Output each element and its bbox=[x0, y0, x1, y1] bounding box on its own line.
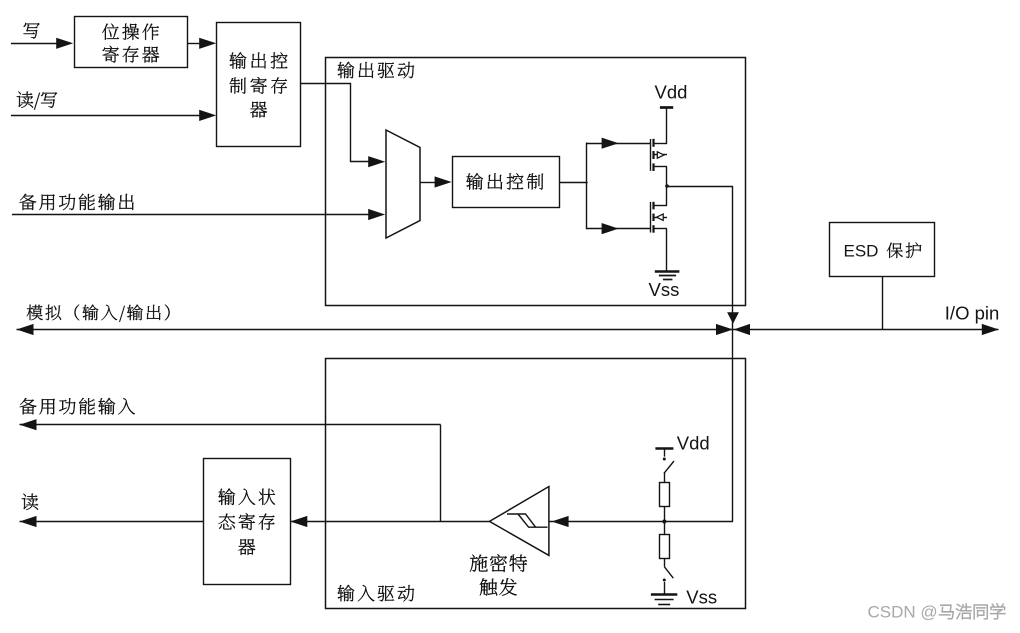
resistor R1 (pull-up) bbox=[660, 483, 670, 507]
switch SW2 (pull-down enable): blade bbox=[664, 567, 673, 578]
wire: pull-down resistor to switch bbox=[664, 558, 666, 567]
wire: ESD box to I/O line bbox=[882, 277, 884, 330]
wire: output control register to multiplexer input (with corner) bbox=[301, 84, 386, 168]
wire: output node to I/O column bbox=[667, 186, 733, 188]
transistor Q1 P-MOS: source link to output node bbox=[653, 167, 667, 187]
transistor Q1 P-MOS: gate bar bbox=[650, 139, 652, 171]
node: 模拟（输入/输出） analog in/out label bbox=[27, 305, 170, 322]
register: 输入状态寄存器 (input status register) box bbox=[204, 459, 291, 585]
transistor Q2 N-MOS: drain link to output node bbox=[653, 186, 667, 206]
svg-text:Vdd: Vdd bbox=[677, 432, 710, 453]
node: 施密特触发 label bbox=[470, 554, 527, 595]
ground: output stage Vss symbol bbox=[655, 272, 680, 280]
ground: pull-down Vss symbol bbox=[651, 595, 677, 605]
wire: I/O pin horizontal line bbox=[17, 329, 999, 331]
power: Vss label (output stage) bbox=[649, 279, 680, 300]
wire: gate splitter vertical bbox=[586, 143, 588, 230]
node: 写 (write) label bbox=[24, 23, 40, 39]
power: Vdd rail bar (pull-up) bbox=[655, 447, 673, 450]
wire: alternate function input line with left arrow bbox=[20, 419, 441, 430]
schmitt trigger U2: hysteresis mark bbox=[507, 514, 548, 527]
wire: alternate function output into multiplexer bbox=[12, 209, 385, 220]
transistor Q2 N-MOS: body arrow bbox=[653, 214, 667, 220]
transistor Q2 N-MOS: channel segments bbox=[652, 202, 654, 233]
resistor R2 (pull-down) bbox=[660, 535, 670, 559]
node: 备用功能输出 (alternate function output) label bbox=[19, 194, 133, 211]
node: 读/写 (read/write) label bbox=[17, 92, 57, 110]
wire: input node to pull-down resistor bbox=[664, 522, 666, 535]
wire: switch to pull-up resistor bbox=[664, 473, 666, 483]
multiplexer U1 (output source select) bbox=[386, 130, 420, 238]
switch SW1 (pull-up enable): blade bbox=[664, 461, 674, 473]
switch SW2 (pull-down enable): bottom contact bbox=[663, 579, 666, 595]
wire: I/O column to schmitt trigger input with arrow bbox=[549, 516, 733, 527]
transistor Q2 N-MOS: gate bar bbox=[650, 202, 652, 233]
wire: I/O column vertical (output driver to pin and input path) bbox=[732, 186, 734, 522]
node: 输出驱动 label bbox=[338, 62, 415, 79]
junction: left arrow at analog end bbox=[17, 324, 34, 335]
wire: write input with arrow into bit-operation register bbox=[11, 38, 73, 49]
wire: splitter to PMOS gate with arrow bbox=[587, 138, 650, 149]
svg-text:Vss: Vss bbox=[649, 279, 680, 300]
transistor Q1 P-MOS: channel segments bbox=[652, 139, 654, 171]
power: Vdd label (pull-up) bbox=[677, 432, 710, 453]
schmitt trigger U2: 施密特触发 triangle bbox=[490, 487, 549, 556]
wire: output control to gate splitter bbox=[560, 182, 588, 184]
block: 输入驱动 (input driver) outer box bbox=[326, 359, 746, 609]
junction: driver output into I/O line (down arrow) bbox=[727, 312, 739, 324]
wire: read/write input with arrow into output control register bbox=[11, 110, 216, 121]
wire: pull-up resistor to input node bbox=[664, 507, 666, 522]
node: 读 (read) label bbox=[22, 494, 38, 510]
node: 备用功能输入 (alternate function input) label bbox=[20, 398, 135, 415]
node: input node junction bbox=[662, 519, 666, 523]
power: Vdd label (output stage) bbox=[655, 81, 688, 102]
wire: splitter to NMOS gate with arrow bbox=[587, 223, 650, 234]
node: CSDN watermark bbox=[868, 603, 1006, 622]
wire: schmitt output to input status register with arrow bbox=[290, 516, 490, 527]
switch SW1 (pull-up enable): top contact bbox=[663, 449, 666, 461]
svg-text:ESD: ESD bbox=[844, 241, 879, 260]
wire: read output line with left arrow bbox=[20, 516, 204, 527]
svg-text:Vdd: Vdd bbox=[655, 81, 688, 102]
transistor Q1 P-MOS: body arrow bbox=[653, 152, 667, 158]
block: 输出驱动 (output driver) outer box bbox=[326, 58, 746, 306]
register: 位操作寄存器 (bit operation register) box bbox=[75, 17, 188, 68]
transistor Q2 N-MOS: source link to Vss bbox=[653, 229, 667, 272]
svg-text:CSDN @: CSDN @ bbox=[868, 603, 938, 622]
svg-text:I/O pin: I/O pin bbox=[945, 303, 1000, 324]
junction: right arrow at I/O pin bbox=[982, 324, 999, 335]
register: 输出控制寄存器 (output control register) box bbox=[217, 23, 301, 147]
block: ESD 保护 (ESD protection) box bbox=[830, 223, 935, 277]
node: push-pull output node bbox=[665, 184, 669, 188]
wire: bit-op register to output control register with arrow bbox=[188, 38, 217, 49]
junction: arrows converging at I/O column bbox=[716, 324, 750, 335]
wire: alternate function input branch vertical bbox=[440, 425, 442, 522]
wire: multiplexer output with arrow into output control block bbox=[420, 176, 452, 187]
block: 输出控制 (output control) box bbox=[453, 157, 560, 208]
node: 输入驱动 label bbox=[338, 585, 415, 602]
node: I/O pin label bbox=[945, 303, 1000, 324]
transistor Q1 P-MOS: drain link to Vdd rail bbox=[653, 107, 667, 144]
svg-text:Vss: Vss bbox=[686, 587, 717, 608]
power: Vss label (pull-down) bbox=[686, 587, 717, 608]
power: Vdd rail bar (output stage) bbox=[660, 106, 673, 109]
